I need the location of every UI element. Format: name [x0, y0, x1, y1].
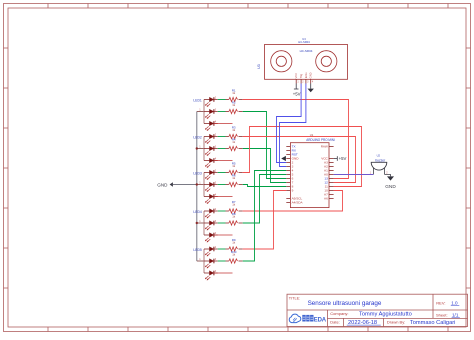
- wire R2 to U1 pin 6 (green): [243, 112, 287, 179]
- op-amp n/a : microcontroller module U1 ARDUINO PRO MINI body: [290, 143, 329, 208]
- LED LED2 (3-element LED, common pin 1): [193, 134, 217, 168]
- wire R5 to U1 pin 11 (red): [243, 127, 362, 187]
- label U3 designator: [298, 37, 310, 44]
- wire R8 to U1 pin 5 (green): [243, 175, 287, 224]
- svg-text:TITLE:: TITLE:: [289, 297, 300, 301]
- svg-text:ARDUINO PRO MINI: ARDUINO PRO MINI: [306, 138, 335, 142]
- wire LED pins to resistor inputs (green segments): [218, 100, 226, 262]
- svg-text:Tommy Aggiustatutto: Tommy Aggiustatutto: [359, 311, 412, 317]
- svg-text:1/1: 1/1: [452, 313, 459, 318]
- U1 right pins RAW VCC A3-A0 13-10 A7 A6: [321, 145, 334, 201]
- svg-text:Company:: Company:: [330, 311, 348, 316]
- title block TITLE row: [289, 297, 382, 307]
- LED LED5 (3-element LED, common pin 1): [193, 246, 217, 280]
- wire R10 to U1 pin 4 (green): [243, 171, 287, 262]
- ground arrow at U1 GND pin: [281, 156, 286, 161]
- title block Sheet cell: [436, 313, 460, 318]
- svg-text:RAW: RAW: [321, 145, 328, 149]
- svg-text:LED5: LED5: [193, 248, 202, 252]
- svg-text:+5V: +5V: [293, 91, 301, 96]
- buzzer U2: [370, 154, 388, 175]
- label U3 side text: [257, 64, 261, 69]
- ultrasonic sensor U3 HC-SR04 body: [265, 45, 348, 80]
- resistor R7 1k: [226, 200, 243, 213]
- title block Date row: [330, 320, 455, 326]
- wire R7 to U1 pin 10 (red): [243, 191, 343, 212]
- LED LED3 (3-element LED, common pin 1): [193, 170, 217, 204]
- svg-text:U3: U3: [257, 64, 261, 69]
- svg-text:Date:: Date:: [330, 320, 340, 325]
- svg-text:VCC: VCC: [294, 73, 298, 79]
- junction on GND bus at LED3 common / GND flag: [196, 183, 198, 185]
- svg-text:HC-SR04: HC-SR04: [298, 40, 310, 44]
- svg-text:Trig: Trig: [299, 73, 303, 78]
- LED LED4 (3-element LED, common pin 1): [193, 208, 217, 242]
- svg-text:+5V: +5V: [339, 156, 347, 161]
- wire U1 A0 to buzzer pin 1 (violet): [334, 174, 374, 176]
- resistor R1 1k: [226, 88, 243, 101]
- svg-text:Echo: Echo: [304, 72, 308, 78]
- svg-text:Drawn By:: Drawn By:: [387, 320, 405, 325]
- svg-text:REV:: REV:: [436, 300, 445, 305]
- svg-text:LED3: LED3: [193, 172, 202, 176]
- svg-text:GND: GND: [385, 184, 396, 189]
- title block border: [287, 294, 468, 326]
- resistor R10 1k: [226, 250, 243, 263]
- junction on GND bus at LED2 common: [196, 147, 198, 149]
- wire R9 to U1 pin 9 (red): [243, 191, 287, 250]
- wire U3 Trig to U1 pin 2 (blue): [277, 84, 302, 163]
- title block Company row: [330, 311, 411, 318]
- resistor R5 1k: [226, 161, 243, 174]
- wire R3 to U1 pin 12 (red): [243, 137, 356, 183]
- label ARDUINO PRO MINI: [306, 138, 335, 142]
- svg-text:HC-SR04: HC-SR04: [300, 49, 313, 53]
- resistor R8 1k: [226, 212, 243, 225]
- wire unconnected LED pin 4 stubs (red): [214, 124, 233, 274]
- svg-text:LED2: LED2: [193, 136, 202, 140]
- svg-text:GND: GND: [157, 183, 168, 188]
- svg-text:Sensore ultrasuoni garage: Sensore ultrasuoni garage: [308, 300, 382, 307]
- U3 pins 1-4 VCC Trig Echo GND: [294, 72, 314, 84]
- junction on GND bus at LED4 common: [196, 222, 198, 224]
- EasyEDA logo: [289, 314, 326, 324]
- wire R4 to U1 pin 7 (green): [243, 149, 287, 183]
- svg-text:A4/SDA: A4/SDA: [292, 201, 304, 205]
- title block REV cell: [436, 300, 459, 305]
- svg-text:LED4: LED4: [193, 210, 202, 214]
- svg-text:Tommaso Caligari: Tommaso Caligari: [410, 320, 456, 326]
- svg-text:A6: A6: [324, 197, 328, 201]
- resistor R4 1k: [226, 137, 243, 150]
- svg-text:Sheet:: Sheet:: [436, 313, 448, 318]
- svg-text:LED1: LED1: [193, 99, 202, 103]
- ground net flag GND (left): [157, 182, 197, 187]
- wire R1 to U1 pin 13 (red): [243, 100, 349, 179]
- LED LED1 (3-element LED, common pin 1): [193, 97, 217, 131]
- resistor R9 1k: [226, 238, 243, 251]
- svg-text:GND: GND: [309, 72, 313, 78]
- label U1 designator: [310, 133, 314, 137]
- wire U3 Echo to U1 pin 3 (blue): [280, 84, 306, 167]
- resistor R2 1k: [226, 100, 243, 113]
- +5V power flag at U3 VCC: [293, 84, 301, 97]
- ground symbol at buzzer pin 2: [385, 175, 397, 190]
- svg-text:EDA: EDA: [314, 318, 327, 324]
- +5V power flag at U1 VCC pin: [334, 156, 347, 161]
- wire GND bus vertical: [196, 112, 198, 262]
- svg-text:9: 9: [292, 189, 294, 193]
- svg-text:U2: U2: [377, 154, 381, 158]
- resistor R3 1k: [226, 125, 243, 138]
- svg-text:U1: U1: [310, 133, 314, 137]
- resistor R6 1k: [226, 173, 243, 186]
- U1 left pins TX RX RST GND 2-9 A5/SCL A4/SDA: [286, 145, 303, 205]
- svg-text:1.0: 1.0: [451, 300, 458, 305]
- ground arrow at U3 GND: [308, 84, 314, 93]
- wire R6 to U1 pin 8 (green): [243, 185, 287, 187]
